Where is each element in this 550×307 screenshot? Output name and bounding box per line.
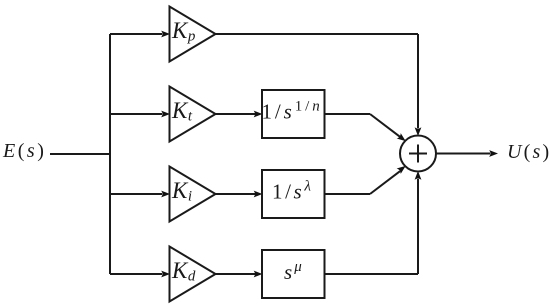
arrowhead into Kp [161,31,170,38]
svg-text:1/sλ: 1/sλ [272,179,313,204]
svg-text:Kd: Kd [171,258,196,285]
arrowhead into Kt [161,111,170,118]
plus sign vertical [417,145,419,163]
gain Kd [170,247,216,302]
wire box2 right [325,193,371,195]
block 1/s^(1/n) [262,90,325,138]
arrowhead into box1 [254,111,263,118]
gain Kp [170,7,216,62]
wire bus to Kp [110,33,162,35]
wire box3 right [325,273,419,275]
svg-text:U(s): U(s) [507,141,550,163]
svg-text:Kp: Kp [171,18,196,45]
wire summer to output [436,153,490,155]
summing junction circle [400,136,436,172]
arrowhead into summer bottom [415,171,422,180]
wire Kp to corner [216,33,419,35]
wire box2 diagonal to summer [370,171,400,194]
arrowhead into box3 [254,271,263,278]
wire bus vertical [109,34,111,274]
svg-text:Ki: Ki [171,178,192,205]
arrowhead into summer lower-left [397,163,408,174]
svg-text:1/s1/n: 1/s1/n [262,99,323,124]
svg-text:sμ: sμ [284,259,304,284]
arrowhead into Kd [161,271,170,278]
block s^mu [262,250,325,298]
wire bus to Kd [110,273,162,275]
svg-text:Kt: Kt [171,98,193,125]
wire E(s) to bus [50,153,110,155]
wire up to summer bottom [417,179,419,274]
wire Ki to box2 [216,193,256,195]
arrowhead into box2 [254,191,263,198]
wire Kt to box1 [216,113,256,115]
arrowhead into summer top [415,127,422,136]
gain Kt [170,87,216,142]
arrowhead output [489,150,498,157]
wire corner down to summer [417,34,419,128]
arrowhead into summer upper-left [397,133,408,144]
wire bus to Kt [110,113,162,115]
wire box1 right [325,113,371,115]
wire box1 diagonal to summer [370,114,400,137]
svg-text:E(s): E(s) [2,140,46,162]
wire Kd to box3 [216,273,256,275]
plus sign horizontal [409,153,427,155]
block 1/s^lambda [262,170,325,218]
gain Ki [170,167,216,222]
arrowhead into Ki [161,191,170,198]
wire bus to Ki [110,193,162,195]
